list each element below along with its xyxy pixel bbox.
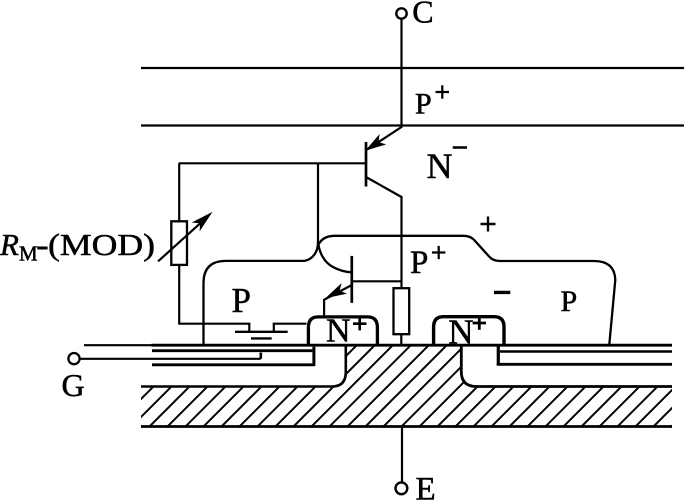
transistor Q1 (PNP) base bar bbox=[365, 142, 368, 187]
P well left outline bbox=[204, 243, 319, 345]
plus sign of center P+ bbox=[432, 246, 445, 259]
silicon bottom surface line bbox=[152, 344, 673, 347]
gate electrode upper line bbox=[152, 349, 312, 352]
resistor R2 body bbox=[394, 288, 410, 334]
N+ right plus sign bbox=[473, 316, 486, 329]
right surface layer vertical connector bbox=[497, 346, 500, 364]
P+ center region and right P region outline bbox=[318, 236, 615, 345]
gate electrode right edge bar bbox=[312, 347, 315, 366]
svg-text:N: N bbox=[427, 146, 453, 186]
N+ well left outline bbox=[308, 317, 377, 346]
wire curve to Q2 base bbox=[318, 242, 352, 273]
gate electrode lower line bbox=[152, 363, 315, 366]
svg-text:P: P bbox=[561, 285, 578, 318]
transistor Q1 emitter arrowhead bbox=[367, 136, 385, 150]
gate lead thin upper line bbox=[84, 344, 153, 346]
layer boundary line bottom (P+/N- junction) bbox=[141, 124, 684, 126]
svg-text:P: P bbox=[415, 88, 432, 121]
P+ layer plus sign bbox=[436, 85, 450, 99]
N+ left plus sign bbox=[353, 317, 367, 330]
wire base-to-Pwell vertical bbox=[317, 163, 319, 243]
right surface layer bottom line bbox=[497, 363, 672, 366]
wire from base line down to resistor RM bbox=[178, 163, 180, 221]
gate lead riser bbox=[259, 353, 262, 359]
resistor RM arrowhead bbox=[194, 213, 212, 229]
emitter metal hatched region fill bbox=[141, 346, 672, 426]
wire below R2 to surface bbox=[400, 334, 402, 345]
svg-text:(MOD): (MOD) bbox=[48, 227, 155, 262]
wire below RM bbox=[178, 265, 180, 325]
svg-text:P: P bbox=[232, 281, 251, 320]
MOS channel line bbox=[251, 337, 272, 339]
resistor RM body bbox=[171, 221, 187, 265]
transistor Q1 collector wire bbox=[366, 177, 402, 197]
gate lead wire from G bbox=[80, 358, 261, 360]
MOS gate symbol middle line bbox=[235, 331, 288, 333]
svg-text:P: P bbox=[410, 245, 428, 281]
terminal C open circle bbox=[396, 8, 406, 18]
minus sign right bbox=[494, 291, 510, 294]
right surface layer middle line bbox=[500, 350, 672, 352]
N- minus sign bbox=[453, 146, 467, 149]
N+ well right outline bbox=[434, 317, 504, 346]
terminal E open circle bbox=[396, 482, 408, 494]
transistor Q2 emitter wire bbox=[324, 285, 352, 317]
wire E vertical bbox=[401, 427, 403, 482]
transistor Q1 emitter wire bbox=[367, 127, 402, 150]
MOS gate symbol right step bbox=[274, 324, 307, 332]
transistor Q2 (NPN) base bar bbox=[350, 256, 353, 303]
svg-text:G: G bbox=[62, 367, 85, 403]
svg-text:R: R bbox=[0, 227, 19, 262]
emitter metal top edge left bbox=[141, 346, 346, 386]
transistor Q1 base wire bbox=[179, 162, 366, 164]
emitter metal bottom edge bbox=[141, 425, 672, 428]
emitter metal step right bbox=[461, 346, 672, 386]
terminal G open circle bbox=[68, 353, 79, 364]
plus sign upper right bbox=[481, 217, 496, 232]
svg-text:M: M bbox=[19, 242, 38, 266]
MOS gate symbol left step bbox=[179, 324, 249, 332]
layer boundary line top (P+ top) bbox=[141, 67, 684, 69]
transistor Q2 collector wire bbox=[352, 280, 402, 282]
resistor RM arrow (variable) bbox=[158, 219, 205, 262]
svg-text:E: E bbox=[416, 472, 436, 500]
wire Q1 collector vertical bbox=[400, 196, 402, 289]
transistor Q2 emitter arrowhead bbox=[327, 285, 345, 298]
svg-text:C: C bbox=[412, 0, 433, 30]
wire C vertical bbox=[400, 19, 402, 126]
